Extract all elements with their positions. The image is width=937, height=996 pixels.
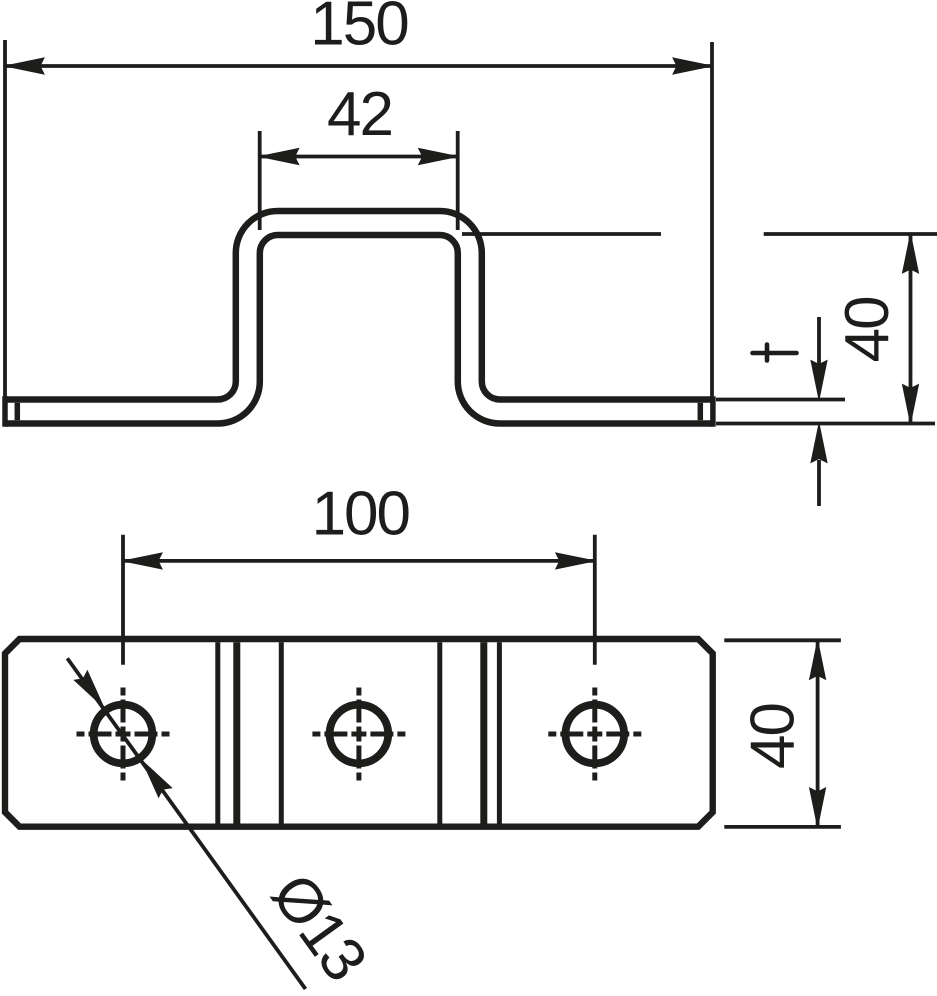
svg-text:Ø13: Ø13 [258,862,379,993]
svg-text:100: 100 [312,480,410,549]
svg-text:40: 40 [833,297,902,362]
svg-text:40: 40 [738,704,807,769]
svg-text:150: 150 [310,0,408,59]
svg-text:42: 42 [327,80,392,149]
